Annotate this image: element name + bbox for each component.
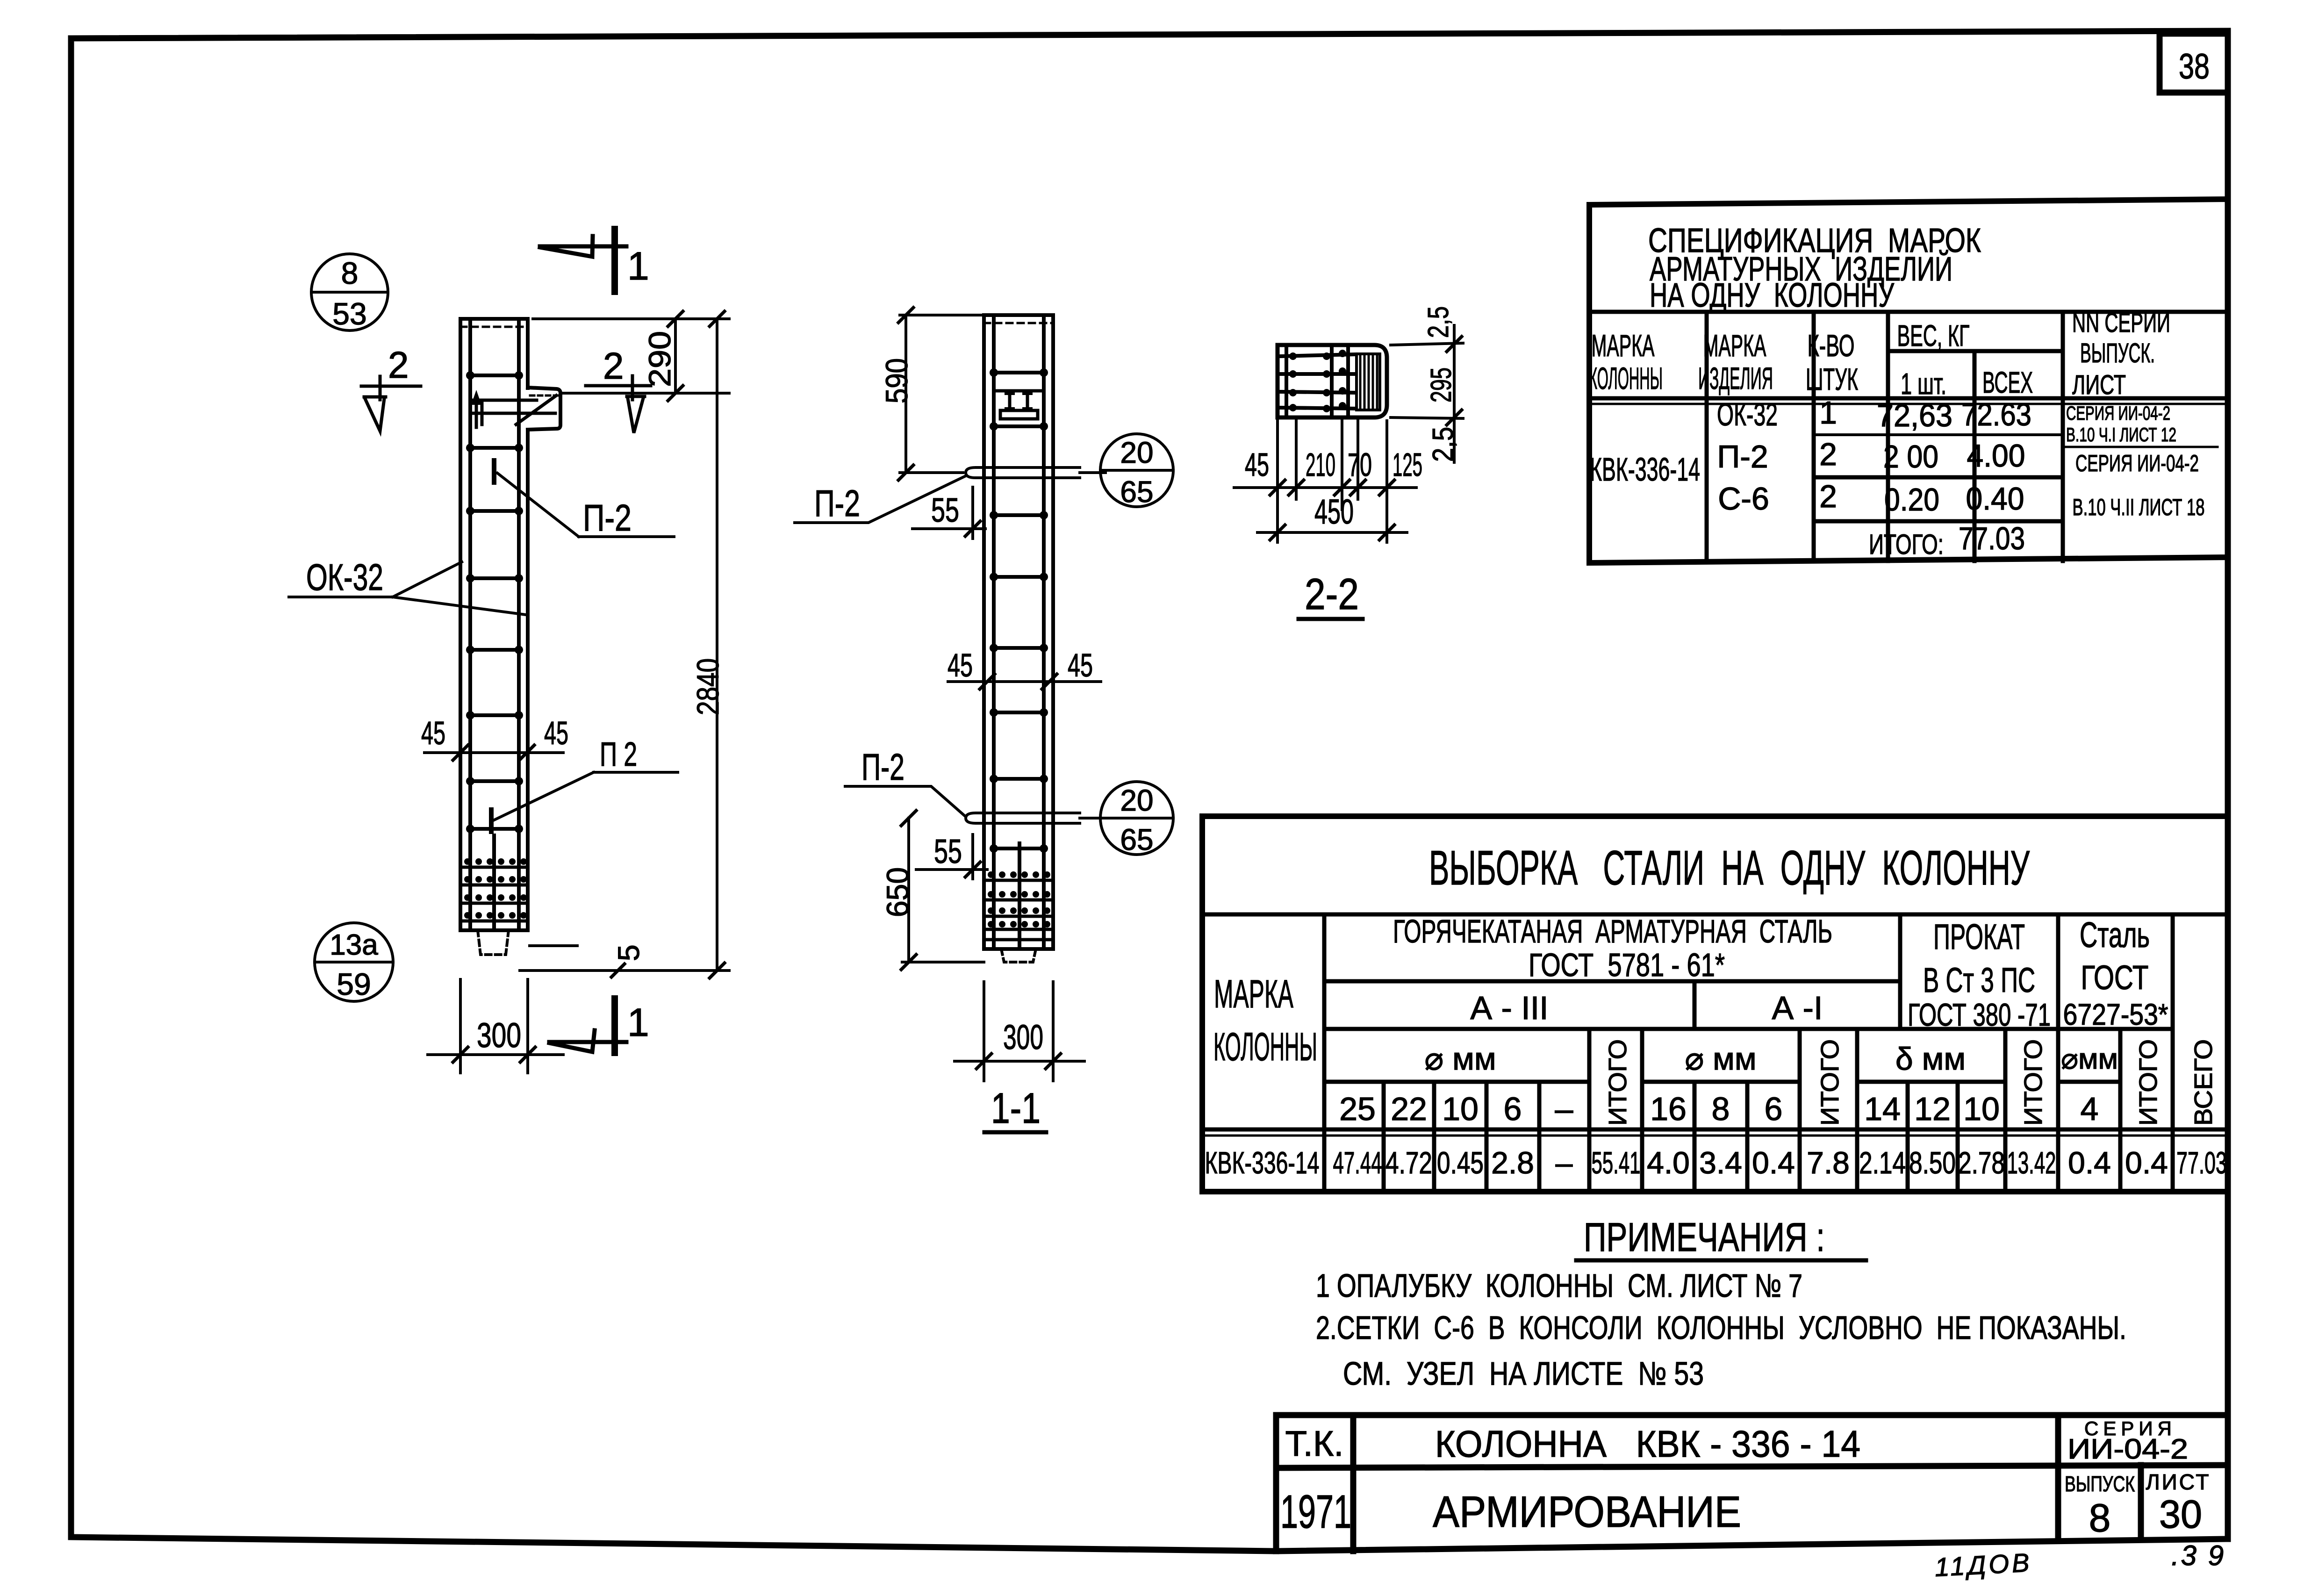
svg-text:4.00: 4.00	[1967, 438, 2025, 474]
svg-text:–: –	[1555, 1091, 1573, 1127]
svg-text:КОЛОННЫ: КОЛОННЫ	[1213, 1025, 1317, 1069]
svg-text:КВК-336-14: КВК-336-14	[1590, 451, 1700, 488]
svg-text:1: 1	[627, 244, 649, 288]
svg-text:СМ. УЗЕЛ НА ЛИСТЕ № 53: СМ. УЗЕЛ НА ЛИСТЕ № 53	[1343, 1355, 1704, 1392]
P-2 bar lower with hook	[966, 813, 1105, 823]
svg-text:⌀ мм: ⌀ мм	[1685, 1041, 1756, 1077]
title block frame	[1276, 1415, 2228, 1551]
P-2 tick lower (left column)	[489, 810, 494, 832]
svg-text:55: 55	[934, 833, 962, 870]
svg-text:Сталь: Сталь	[2080, 915, 2150, 955]
svg-text:МАРКА: МАРКА	[1703, 328, 1766, 363]
svg-text:1-1: 1-1	[991, 1085, 1041, 1132]
svg-text:ГОРЯЧЕКАТАНАЯ АРМАТУРНАЯ СТА: ГОРЯЧЕКАТАНАЯ АРМАТУРНАЯ СТАЛЬ	[1393, 913, 1832, 949]
svg-text:2.78: 2.78	[1958, 1145, 2005, 1180]
svg-text:ЛИСТ: ЛИСТ	[2072, 370, 2126, 400]
svg-text:45: 45	[1245, 446, 1269, 483]
svg-text:53: 53	[332, 296, 366, 331]
svg-text:К-ВО: К-ВО	[1808, 328, 1855, 363]
dim 55 upper	[912, 487, 985, 539]
dim 45 45 middle	[948, 680, 1101, 683]
dim 300 left column	[428, 979, 563, 1073]
svg-text:КОЛОННЫ: КОЛОННЫ	[1589, 361, 1663, 395]
dim 5	[530, 944, 577, 947]
node circle 8/53	[311, 254, 388, 331]
svg-text:22: 22	[1391, 1091, 1427, 1127]
section plate hatch	[1357, 354, 1380, 410]
svg-text:45: 45	[544, 715, 568, 751]
svg-text:А -I: А -I	[1772, 990, 1823, 1026]
svg-text:5: 5	[612, 944, 646, 961]
section bottom dims	[1234, 421, 1416, 542]
svg-text:0.40: 0.40	[1966, 481, 2024, 517]
svg-text:ГОСТ 5781 - 61*: ГОСТ 5781 - 61*	[1529, 947, 1725, 983]
svg-text:55.41: 55.41	[1592, 1145, 1641, 1180]
dim 55 lower	[916, 834, 987, 879]
dim 300 middle	[955, 982, 1084, 1081]
svg-text:ВЕС, КГ: ВЕС, КГ	[1897, 319, 1970, 352]
svg-text:450: 450	[1314, 492, 1354, 531]
svg-text:П-2: П-2	[583, 497, 632, 539]
svg-text:295: 295	[1425, 367, 1457, 403]
svg-text:КВК-336-14: КВК-336-14	[1205, 1145, 1320, 1180]
svg-text:1 шт.: 1 шт.	[1901, 367, 1946, 401]
middle column longitudinal bars	[994, 318, 1044, 947]
left column bottom tip	[478, 930, 509, 955]
svg-text:2840: 2840	[690, 658, 725, 715]
svg-text:2: 2	[1819, 479, 1837, 514]
svg-text:0.45: 0.45	[1437, 1145, 1484, 1180]
section bars vertical	[1286, 348, 1348, 414]
svg-text:ВСЕГО: ВСЕГО	[2189, 1039, 2218, 1126]
svg-text:30: 30	[2159, 1492, 2202, 1536]
stirrup end dots	[466, 371, 523, 833]
svg-text:В.10 Ч.I ЛИСТ 12: В.10 Ч.I ЛИСТ 12	[2066, 424, 2176, 446]
svg-text:ОК-32: ОК-32	[306, 556, 383, 598]
svg-text:12: 12	[1914, 1091, 1951, 1127]
svg-text:.3 9: .3 9	[2171, 1540, 2225, 1571]
left column longitudinal bars	[470, 322, 519, 928]
svg-text:АРМИРОВАНИЕ: АРМИРОВАНИЕ	[1433, 1487, 1741, 1536]
svg-text:4.0: 4.0	[1647, 1145, 1690, 1180]
svg-text:ИТОГО: ИТОГО	[1604, 1039, 1632, 1126]
svg-text:–: –	[1556, 1145, 1573, 1180]
section mark 1 top	[540, 236, 626, 257]
svg-text:СЕРИЯ ИИ-04-2: СЕРИЯ ИИ-04-2	[2075, 450, 2199, 476]
node circle 20/65 upper	[1100, 434, 1173, 507]
left column anchorage mesh zone	[460, 835, 528, 928]
svg-text:72,63: 72,63	[1877, 398, 1952, 433]
svg-text:65: 65	[1120, 823, 1153, 856]
svg-text:20: 20	[1120, 436, 1153, 469]
svg-text:650: 650	[880, 867, 915, 917]
svg-text:ШТУК: ШТУК	[1806, 362, 1858, 396]
svg-text:2 00: 2 00	[1883, 439, 1938, 474]
svg-text:2.СЕТКИ С-6 В КОНСОЛИ КОЛО: 2.СЕТКИ С-6 В КОНСОЛИ КОЛОННЫ УСЛОВНО НЕ…	[1316, 1309, 2126, 1346]
svg-text:2: 2	[1819, 437, 1837, 472]
svg-text:25: 25	[1339, 1091, 1376, 1127]
svg-text:П-2: П-2	[861, 746, 904, 788]
dim 2840	[520, 319, 729, 971]
svg-text:4: 4	[2081, 1091, 2099, 1127]
svg-text:2,5: 2,5	[1422, 306, 1455, 338]
svg-text:65: 65	[1120, 475, 1153, 509]
mesh dots	[464, 858, 527, 919]
embedded plate detail	[995, 389, 1044, 393]
svg-text:ГОСТ: ГОСТ	[2081, 959, 2149, 997]
svg-text:300: 300	[477, 1016, 521, 1055]
svg-text:13а: 13а	[330, 929, 378, 961]
svg-text:14: 14	[1864, 1091, 1901, 1127]
svg-text:11ДОВ: 11ДОВ	[1934, 1547, 2032, 1582]
svg-text:2-2: 2-2	[1305, 569, 1359, 618]
svg-text:4.72: 4.72	[1385, 1145, 1432, 1180]
node circle 20/65 lower	[1100, 782, 1173, 855]
svg-text:59: 59	[337, 967, 371, 1001]
svg-text:⌀мм: ⌀мм	[2061, 1043, 2118, 1075]
svg-text:ИТОГО:: ИТОГО:	[1869, 529, 1944, 560]
corbel bars	[473, 400, 555, 413]
node circle 13a/59	[315, 923, 393, 1001]
section 2-2 outline	[1278, 345, 1387, 417]
svg-text:125: 125	[1393, 446, 1422, 483]
svg-text:1: 1	[627, 1000, 649, 1044]
svg-text:НА ОДНУ КОЛОННУ: НА ОДНУ КОЛОННУ	[1650, 277, 1895, 314]
P-2 bar upper with hook	[966, 467, 1105, 478]
svg-text:16: 16	[1650, 1091, 1687, 1127]
svg-text:0.4: 0.4	[2068, 1145, 2111, 1180]
left column top dashed line	[460, 326, 528, 328]
svg-text:ПРОКАТ: ПРОКАТ	[1933, 917, 2025, 957]
svg-text:45: 45	[1068, 647, 1093, 683]
svg-text:В.10 Ч.II ЛИСТ 18: В.10 Ч.II ЛИСТ 18	[2073, 494, 2205, 520]
corbel diagonal bar	[516, 395, 556, 424]
svg-text:МАРКА: МАРКА	[1592, 328, 1655, 363]
spec table grid	[1589, 312, 2228, 561]
left column outline	[460, 319, 528, 930]
svg-text:0.20: 0.20	[1884, 482, 1939, 518]
svg-text:П-2: П-2	[1717, 439, 1768, 474]
svg-text:70: 70	[1348, 446, 1372, 483]
svg-text:0.4: 0.4	[1752, 1145, 1795, 1180]
dim 45 45 left column	[424, 751, 563, 754]
svg-text:1971: 1971	[1280, 1486, 1351, 1538]
specification table frame	[1589, 199, 2228, 563]
svg-text:ВСЕХ: ВСЕХ	[1982, 366, 2033, 399]
svg-text:20: 20	[1120, 784, 1153, 817]
svg-text:ПРИМЕЧАНИЯ :: ПРИМЕЧАНИЯ :	[1584, 1215, 1825, 1260]
svg-text:8.50: 8.50	[1909, 1145, 1956, 1180]
svg-text:210: 210	[1306, 446, 1335, 483]
svg-text:6: 6	[1765, 1091, 1783, 1127]
left column stirrups	[470, 375, 519, 829]
svg-text:П-2: П-2	[814, 482, 860, 524]
svg-text:2.8: 2.8	[1491, 1145, 1534, 1180]
svg-text:⌀ мм: ⌀ мм	[1424, 1041, 1496, 1077]
svg-text:72.63: 72.63	[1961, 397, 2031, 432]
svg-text:ЛИСТ: ЛИСТ	[2146, 1470, 2211, 1494]
svg-text:38: 38	[2179, 47, 2210, 86]
steel summary table frame	[1202, 816, 2228, 1192]
svg-text:СЕРИЯ ИИ-04-2: СЕРИЯ ИИ-04-2	[2066, 402, 2170, 424]
svg-text:590: 590	[879, 358, 914, 403]
svg-text:77.03: 77.03	[1959, 521, 2025, 556]
dim 590	[900, 315, 984, 473]
svg-text:7.8: 7.8	[1807, 1145, 1850, 1180]
svg-text:6727-53*: 6727-53*	[2063, 998, 2168, 1031]
sheet number box	[2160, 34, 2228, 93]
svg-text:С-6: С-6	[1718, 481, 1769, 517]
svg-text:КОЛОННА КВК - 336 - 14: КОЛОННА КВК - 336 - 14	[1435, 1423, 1860, 1465]
svg-text:3.4: 3.4	[1699, 1145, 1742, 1180]
dim 290	[533, 319, 729, 393]
svg-text:13.42: 13.42	[2007, 1145, 2056, 1180]
svg-text:ИТОГО: ИТОГО	[2134, 1039, 2162, 1126]
svg-text:δ мм: δ мм	[1895, 1041, 1966, 1077]
svg-text:ИТОГО: ИТОГО	[2019, 1039, 2047, 1126]
svg-text:45: 45	[948, 647, 973, 683]
middle column outline	[984, 315, 1053, 949]
left column corbel	[528, 388, 560, 430]
svg-text:8: 8	[2089, 1496, 2111, 1540]
svg-text:8: 8	[1712, 1091, 1730, 1127]
svg-text:ВЫБОРКА СТАЛИ НА ОДНУ КОЛ: ВЫБОРКА СТАЛИ НА ОДНУ КОЛОННУ	[1429, 841, 2030, 895]
svg-text:2.14: 2.14	[1859, 1145, 1906, 1180]
svg-text:ГОСТ 380 -71: ГОСТ 380 -71	[1908, 997, 2051, 1033]
svg-text:ИЗДЕЛИЯ: ИЗДЕЛИЯ	[1698, 361, 1773, 395]
corbel dashed top	[530, 395, 558, 397]
steel table grid	[1202, 914, 2228, 1192]
svg-text:47.44: 47.44	[1333, 1145, 1382, 1180]
svg-text:1: 1	[1819, 395, 1837, 431]
svg-text:ВЫПУСК: ВЫПУСК	[2065, 1472, 2135, 1496]
svg-text:45: 45	[421, 715, 445, 751]
section right dims 2.5 / 295 / 2.5	[1391, 325, 1463, 462]
section corner dots	[1289, 350, 1346, 412]
middle mesh dots	[988, 871, 1050, 927]
corbel anchor hook with arrow	[476, 397, 482, 427]
middle column anchorage mesh zone	[984, 843, 1053, 946]
svg-text:В Ст 3 ПС: В Ст 3 ПС	[1923, 961, 2035, 999]
svg-text:ОК-32: ОК-32	[1717, 397, 1778, 432]
svg-text:10: 10	[1442, 1091, 1479, 1127]
svg-text:ВЫПУСК.: ВЫПУСК.	[2080, 338, 2155, 368]
P-2 tick upper (left column)	[492, 460, 496, 482]
svg-text:77.03: 77.03	[2176, 1145, 2227, 1180]
svg-text:0.4: 0.4	[2125, 1145, 2168, 1180]
middle stirrup dots	[990, 368, 1048, 853]
svg-text:10: 10	[1963, 1091, 2000, 1127]
svg-text:ИТОГО: ИТОГО	[1816, 1039, 1844, 1126]
svg-text:2: 2	[603, 345, 624, 387]
svg-text:2,5: 2,5	[1427, 427, 1459, 462]
section stirrup lines	[1281, 354, 1356, 409]
svg-text:290: 290	[642, 331, 677, 387]
middle column top dashed line	[984, 322, 1053, 324]
svg-text:2: 2	[388, 344, 409, 386]
dim 650	[902, 818, 984, 962]
svg-text:8: 8	[341, 256, 359, 290]
middle column bottom tip	[1001, 949, 1036, 962]
svg-text:55: 55	[931, 492, 959, 529]
svg-text:NN СЕРИИ: NN СЕРИИ	[2072, 308, 2170, 338]
svg-text:Т.К.: Т.К.	[1285, 1424, 1344, 1464]
svg-text:П 2: П 2	[600, 736, 637, 773]
svg-text:ИИ-04-2: ИИ-04-2	[2067, 1433, 2188, 1465]
svg-text:МАРКА: МАРКА	[1214, 972, 1293, 1016]
svg-text:6: 6	[1504, 1091, 1522, 1127]
svg-text:А - III: А - III	[1470, 990, 1548, 1026]
section mark 1 bottom	[549, 1030, 626, 1052]
svg-text:1 ОПАЛУБКУ КОЛОННЫ СМ. ЛИСТ: 1 ОПАЛУБКУ КОЛОННЫ СМ. ЛИСТ № 7	[1316, 1267, 1802, 1304]
middle column stirrups	[994, 373, 1044, 848]
svg-text:300: 300	[1003, 1018, 1043, 1057]
